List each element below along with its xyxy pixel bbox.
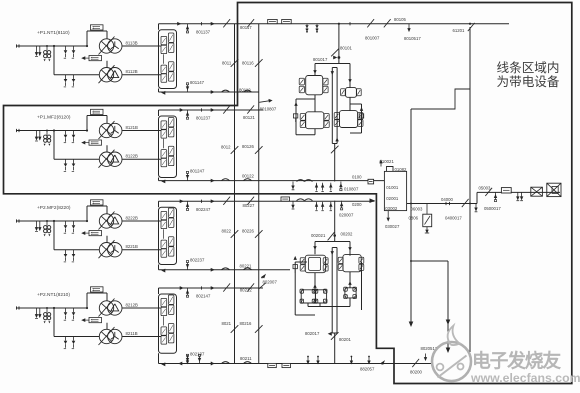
svg-text:0400017: 0400017: [445, 216, 462, 221]
row 3 input end ticks: [16, 219, 18, 222]
row 1 block top stub: [158, 24, 160, 30]
svg-text:010807: 010807: [344, 187, 359, 192]
top bus switch 801007: [367, 19, 374, 27]
row 4 block top stub: [158, 288, 160, 294]
bus 05003 wire: [477, 191, 560, 193]
row 1 main wire: [16, 45, 87, 47]
converter module block U4: [159, 294, 177, 353]
transformer T1u (8113B): [99, 39, 113, 53]
bus 0200 breaker bumps: [297, 199, 305, 201]
row 2 lower wire: [54, 158, 99, 160]
svg-text:8021: 8021: [222, 321, 232, 326]
inverter DC rails: [331, 68, 333, 144]
row 1 disconnector after boundary: [247, 19, 254, 27]
row 2 connector cluster: [46, 130, 48, 132]
svg-text:8121B: 8121B: [126, 125, 139, 130]
pantograph branch wire: [411, 260, 448, 262]
bottom bus fuse 802137b: [199, 356, 201, 363]
row 4 current sensor CT4b: [89, 318, 102, 323]
svg-text:8212B: 8212B: [126, 303, 139, 308]
row 1 primary loop wire: [86, 45, 88, 47]
row 4 surge capacitors lower: [65, 337, 67, 341]
row 4 current sensor CT4a: [91, 287, 104, 292]
row 4 junction to lower branch: [53, 307, 55, 309]
row 1 bottom wire fuse 801147: [187, 85, 189, 92]
bus 0200 PT fuses: [316, 202, 318, 210]
bottom inverter module B4: [315, 290, 326, 303]
row 3 connector cluster: [46, 220, 48, 222]
svg-text:8112B: 8112B: [126, 69, 138, 74]
filter box earth lead 030027: [387, 211, 389, 218]
arresters on 05003 bus: [517, 192, 519, 199]
row 3 DC bottom wire: [159, 269, 291, 271]
bus 04000 wire: [407, 203, 477, 205]
row 4 bottom wire arrow: [211, 362, 215, 366]
svg-text:03002: 03002: [385, 206, 398, 211]
row 4 bottom wire start arrow: [161, 362, 165, 366]
row 1 current sensor CT1b: [89, 56, 102, 61]
svg-text:802147: 802147: [196, 294, 211, 299]
row 1 connector cluster: [46, 45, 48, 47]
inverter module A4: [340, 111, 358, 128]
converter module block U1: [159, 30, 177, 89]
svg-text:80126: 80126: [242, 144, 255, 149]
svg-text:802247: 802247: [196, 207, 211, 212]
watermark logo magnifier: [432, 342, 471, 381]
line filter block 01001/02001/03002: [384, 171, 406, 210]
row 4 top wire switch: [223, 283, 230, 291]
row 1 bottom wire breaker humps: [222, 90, 230, 92]
top bus switch: [384, 19, 391, 27]
row 2 input end ticks: [16, 129, 18, 132]
row 2 top wire fuse 801237: [187, 110, 189, 117]
svg-text:801237: 801237: [196, 116, 211, 121]
bottom bus arrester: [187, 356, 189, 364]
svg-text:801137: 801137: [196, 29, 211, 34]
row 2 main wire: [16, 130, 87, 132]
row 4 disconnector after boundary: [247, 283, 254, 291]
svg-text:802017: 802017: [305, 331, 320, 336]
row 2 current sensor CT2a: [91, 109, 104, 114]
box component on 05003 bus: [501, 188, 511, 193]
switch on inverter feed: [331, 49, 339, 57]
disconnector 61201: [469, 23, 471, 25]
row 4 input end ticks: [16, 306, 18, 309]
svg-text:8011: 8011: [222, 60, 232, 65]
row 2 bottom wire arrow: [211, 179, 215, 183]
row 3 bottom wire fuse 802237: [187, 263, 189, 270]
row 2 top wire switch: [223, 105, 230, 113]
svg-text:+P2.MF2(8220): +P2.MF2(8220): [37, 205, 71, 211]
row 2 disconnector after boundary: [247, 105, 254, 113]
bottom inverter small arrows: [313, 246, 316, 250]
row 4 input arresters: [36, 308, 38, 317]
row 3 current sensor CT3b: [89, 231, 102, 236]
inverter bottom joining wires: [314, 129, 316, 135]
svg-text:8010517: 8010517: [404, 36, 421, 41]
bottom bus box components: [268, 363, 277, 367]
inverter left rail: [295, 99, 297, 135]
row 3 top wire fuse 802247: [187, 201, 189, 208]
bottom inverter output wire 80201: [332, 332, 337, 334]
vertical bus V1: [234, 24, 236, 364]
bottom inverter right rail: [361, 262, 363, 310]
svg-text:80116: 80116: [242, 61, 254, 66]
row 2 end stub arrow 8010807: [259, 101, 269, 103]
row 4 end blade at V2: [259, 283, 266, 289]
row 1 block bottom stub: [158, 89, 160, 93]
svg-text:801017: 801017: [313, 57, 328, 62]
svg-text:020007: 020007: [339, 212, 354, 217]
inverter feed wire 80101: [338, 24, 340, 58]
row 1 bottom wire arrow: [211, 90, 215, 94]
bus 0100 components: [340, 182, 342, 189]
bus 0200 (row3 top wire) components: [341, 201, 343, 208]
row 3 main wire: [16, 220, 87, 222]
svg-text:8012: 8012: [221, 145, 231, 150]
fuse 0500017: [495, 192, 497, 199]
svg-text:80227: 80227: [243, 203, 256, 208]
bottom inverter module B3: [301, 290, 315, 303]
row 1 current sensor CT1a: [91, 25, 104, 30]
converter module block U2: [159, 116, 177, 178]
bottom bus junction arrow 882057: [380, 360, 385, 365]
row 1 top wire fuse 801137: [187, 24, 189, 31]
svg-text:0200: 0200: [352, 202, 362, 207]
converter module block U3: [159, 207, 177, 264]
top bus arrow: [177, 22, 181, 26]
row 4 switches on vertical buses: [231, 325, 239, 333]
row 2 surge capacitors upper: [65, 131, 67, 135]
bottom inverter split wires: [315, 241, 350, 243]
row 2 top wire arrow: [180, 108, 184, 112]
top AC bus wire: [159, 23, 510, 25]
row 3 block top stub: [158, 201, 160, 207]
box component on bus 0200: [281, 197, 290, 201]
row 3 block bottom stub: [158, 265, 160, 270]
bottom inverter module B5: [345, 288, 356, 298]
row 3 top wire arrow: [180, 199, 184, 203]
junction 002021 / 00202: [333, 234, 336, 237]
row 4 primary loop wire: [86, 307, 88, 309]
row 4 connector cluster: [46, 307, 48, 309]
svg-text:80117: 80117: [240, 25, 252, 30]
inverter module A2: [346, 88, 357, 98]
row 2 top wire arrow 2: [211, 108, 215, 112]
transformer T4l (8211B): [99, 329, 113, 343]
bottom inverter left rail element: [293, 265, 297, 269]
svg-text:80121: 80121: [243, 115, 256, 120]
bottom bus arrow left end: [178, 362, 182, 366]
row 3 DC top wire: [159, 200, 375, 202]
row 3 primary loop wire: [86, 220, 88, 222]
row 1 junction to lower branch: [53, 45, 55, 47]
svg-text:为带电设备: 为带电设备: [497, 75, 560, 89]
row 1 input arresters: [36, 46, 38, 55]
svg-text:电子发烧友: 电子发烧友: [472, 349, 561, 371]
svg-text:8122B: 8122B: [126, 154, 139, 159]
bus 0100 breaker bumps: [297, 180, 305, 182]
row 4 DC bottom wire: [159, 363, 421, 365]
cable coupler small: [531, 187, 543, 196]
row 1 bottom wire start arrow: [161, 91, 165, 95]
row 3 bottom wire start arrow: [161, 269, 165, 273]
row 3 input arresters: [36, 221, 38, 230]
row 1 DC bottom wire: [159, 91, 259, 93]
row 4 top wire arrow: [180, 286, 184, 290]
pantograph wire P2: [447, 261, 449, 352]
top bus component boxes: [268, 19, 278, 23]
inverter right rail element: [359, 114, 363, 118]
cable coupler large: [547, 183, 561, 196]
row 2 junction to lower branch: [53, 129, 55, 131]
row 4 lower wire: [54, 336, 99, 338]
bottom bus hangers: [307, 357, 309, 364]
inverter right rail: [361, 104, 363, 133]
row 2 bottom wire fuse 801247: [187, 173, 189, 180]
svg-text:www.elecfans.com: www.elecfans.com: [470, 371, 580, 385]
row 1 top wire switch: [223, 19, 230, 27]
svg-text:02001: 02001: [386, 196, 399, 201]
row 4 main wire: [16, 307, 87, 309]
svg-text:002021: 002021: [311, 233, 326, 238]
bottom inverter module B2: [343, 255, 361, 272]
transformer T2u (8121B): [99, 123, 113, 137]
svg-text:882057: 882057: [360, 367, 375, 372]
row 4 top wire arrow 2: [211, 286, 215, 290]
svg-text:00202: 00202: [341, 232, 354, 237]
svg-text:80101: 80101: [340, 46, 353, 51]
row 3 switches on vertical buses: [231, 230, 239, 238]
bus 0100 PT fuses: [316, 183, 318, 191]
inverter DC split wires: [338, 58, 340, 64]
pantograph wire P1: [410, 109, 412, 326]
row 3 bottom wire end arrow 802007: [261, 274, 266, 279]
row 4 surge capacitors upper: [65, 308, 67, 312]
switch 05003: [485, 188, 492, 196]
row 1 lower wire: [54, 74, 99, 76]
wire 61201 branch step: [411, 89, 470, 109]
inverter module A1 (4Q chopper): [306, 76, 323, 95]
svg-text:801147: 801147: [190, 80, 205, 85]
bottom inverter connect wires: [314, 273, 316, 290]
row 2 DC top wire: [159, 109, 264, 111]
inverter section small arrows: [313, 70, 316, 74]
bus 0100 node box: [368, 179, 374, 184]
svg-text:06003: 06003: [411, 207, 424, 212]
bottom inverter module B1: [305, 255, 325, 273]
svg-text:80201: 80201: [339, 337, 352, 342]
bus 0100 arrester: [292, 182, 294, 189]
row 3 bottom wire arrow: [211, 268, 215, 272]
svg-text:+P2.NT1(8210): +P2.NT1(8210): [37, 292, 70, 298]
bottom inverter DC rails: [331, 248, 333, 334]
bus 0200 end arrow at boundary: [370, 198, 376, 203]
row 2 current sensor CT2b: [89, 140, 102, 145]
transformer T3l (8221B): [99, 243, 113, 257]
row 2 block top stub: [158, 110, 160, 116]
node A junction 801017: [338, 56, 341, 59]
row 3 surge capacitors upper: [65, 221, 67, 225]
svg-text:801007: 801007: [365, 36, 380, 41]
row 4 top wire fuse 802147: [187, 288, 189, 295]
svg-text:8022: 8022: [222, 229, 232, 234]
vertical bus V2: [258, 24, 260, 364]
row 2 block bottom stub: [158, 178, 160, 181]
row 4 bottom wire fuse 802137: [187, 356, 189, 363]
svg-text:01001: 01001: [386, 185, 399, 190]
svg-text:0500017: 0500017: [484, 206, 501, 211]
top bus element 8010517: [408, 24, 410, 31]
transformer T3u (8222B): [99, 214, 113, 228]
svg-text:80216: 80216: [240, 321, 253, 326]
row 2 input arresters: [36, 131, 38, 140]
svg-text:线条区域内: 线条区域内: [497, 60, 560, 75]
row 1 switches on vertical buses: [231, 59, 239, 67]
transformer T2l (8122B): [99, 152, 113, 166]
row 4 DC top wire: [159, 287, 264, 289]
svg-text:05003: 05003: [479, 185, 492, 190]
switch 0400017: [462, 199, 469, 207]
top bus voltage transformers: [306, 24, 308, 32]
transformer T1l (8112B): [99, 68, 113, 82]
svg-text:8211B: 8211B: [126, 331, 138, 336]
svg-text:80105: 80105: [394, 17, 407, 22]
svg-text:01082: 01082: [395, 167, 408, 172]
inverter module A3: [306, 112, 324, 129]
switch below inverter: [331, 146, 339, 154]
svg-text:80211: 80211: [240, 356, 252, 361]
inverter left rail element: [293, 114, 297, 118]
row 2 primary loop wire: [86, 129, 88, 131]
row 3 bottom wire breaker humps: [222, 268, 230, 270]
row 4 bottom wire breaker humps: [222, 362, 230, 364]
svg-text:8010807: 8010807: [260, 107, 277, 112]
row 2 switches on vertical buses: [231, 146, 239, 154]
svg-text:00122: 00122: [242, 174, 255, 179]
svg-text:+P1.MF2(8120): +P1.MF2(8120): [37, 115, 71, 121]
row 3 surge capacitors lower: [65, 250, 67, 254]
svg-text:04000: 04000: [441, 197, 454, 202]
row 1 surge capacitors upper: [65, 46, 67, 50]
svg-text:8222B: 8222B: [126, 216, 139, 221]
svg-text:8113B: 8113B: [126, 41, 138, 46]
bus 0200 arrester: [292, 201, 294, 208]
svg-text:80200: 80200: [410, 370, 423, 375]
row 3 disconnector after boundary: [247, 197, 254, 205]
row 3 current sensor CT3a: [91, 200, 104, 205]
bottom inverter feed from bus 0200: [334, 201, 336, 242]
bottom inverter left rail: [294, 262, 296, 315]
svg-text:0806: 0806: [409, 216, 419, 221]
svg-text:802237: 802237: [190, 258, 205, 263]
row 3 top wire switch: [223, 197, 230, 205]
svg-text:0100: 0100: [352, 175, 362, 180]
svg-text:80221: 80221: [240, 264, 253, 269]
row 3 lower wire: [54, 249, 99, 251]
switch 80200: [412, 359, 419, 367]
transformer T4u (8212B): [99, 301, 113, 315]
row 1 input end ticks: [16, 44, 18, 47]
row 2 surge capacitors lower: [65, 159, 67, 163]
svg-text:802137: 802137: [190, 351, 205, 356]
row 2 bottom wire breaker humps: [222, 179, 230, 181]
row 3 junction to lower branch: [53, 220, 55, 222]
svg-text:80226: 80226: [242, 229, 255, 234]
row 2 DC bottom wire: [159, 180, 385, 182]
svg-text:8221B: 8221B: [126, 244, 139, 249]
svg-text:801247: 801247: [190, 168, 205, 173]
row 1 surge capacitors lower: [65, 75, 67, 79]
svg-text:61201: 61201: [453, 28, 466, 33]
wire from 61201 down: [469, 27, 471, 352]
row 4 block bottom stub: [158, 353, 160, 363]
row 1 top wire arrow 2: [211, 22, 215, 26]
row 2 bottom wire start arrow: [161, 180, 165, 184]
svg-text:+P1.NT1(8110): +P1.NT1(8110): [37, 30, 70, 36]
svg-text:030027: 030027: [385, 224, 400, 229]
arrester on 04000 bus: [475, 204, 477, 211]
svg-text:80112: 80112: [239, 87, 251, 92]
row 3 top wire arrow 2: [211, 199, 215, 203]
